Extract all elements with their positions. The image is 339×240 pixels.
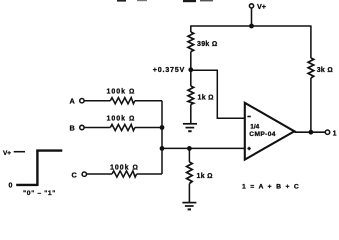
ground (reference divider): [183, 124, 197, 131]
wire: comparator output: [294, 131, 325, 133]
resistor 1k (reference divider lower): [188, 86, 194, 104]
V+ supply terminal: [249, 2, 266, 11]
svg-text:100k Ω: 100k Ω: [107, 116, 136, 123]
svg-text:CMP-04: CMP-04: [249, 131, 276, 138]
cropped caption text at top edge: [117, 0, 213, 2]
wire: C to resistor: [87, 173, 113, 175]
input step waveform annotation: [3, 150, 62, 198]
wire: A to resistor: [84, 100, 110, 102]
input terminal B: [70, 124, 85, 133]
svg-text:1 = A + B + C: 1 = A + B + C: [242, 184, 300, 191]
svg-text:V+: V+: [3, 150, 11, 157]
svg-text:C: C: [72, 170, 78, 179]
ground (summing): [182, 203, 196, 210]
wire: node to comparator inverting input: [191, 70, 245, 118]
wire: summing bus vertical: [161, 101, 163, 174]
resistor 39k (reference divider upper): [188, 32, 194, 52]
junction dot B on bus: [160, 125, 165, 130]
wire: rail to R 39k: [190, 25, 192, 32]
output terminal 1: [325, 130, 336, 137]
wire: R1k to ground: [188, 184, 190, 203]
resistor 1k (summing node to ground): [187, 162, 193, 184]
svg-text:V+: V+: [257, 2, 266, 11]
comparator U1 1/4 CMP-04: [245, 103, 295, 160]
resistor 100k (input A): [110, 98, 135, 104]
svg-text:1k Ω: 1k Ω: [197, 173, 213, 180]
input terminal C: [72, 170, 87, 179]
svg-text:1/4: 1/4: [250, 123, 259, 130]
wire: R1k to ground: [190, 104, 192, 123]
resistor 100k (input C): [112, 171, 137, 177]
junction dot summing 1k: [187, 146, 192, 151]
svg-text:100k Ω: 100k Ω: [107, 89, 136, 96]
node +0.375V: [188, 67, 193, 72]
wire: V+ stem: [251, 8, 253, 26]
non-inverting input mark: [247, 148, 250, 150]
wire: pull-up to output node: [310, 78, 312, 132]
wire: R39k to node: [190, 52, 192, 86]
junction dot at V+ on rail: [249, 24, 254, 29]
svg-text:+0.375V: +0.375V: [153, 65, 185, 74]
wire: B to resistor: [84, 127, 110, 129]
wire: summing rail to comparator non-inverting input: [162, 147, 245, 149]
svg-text:100k Ω: 100k Ω: [110, 164, 139, 171]
svg-text:39k Ω: 39k Ω: [197, 41, 218, 48]
wire: resistor B to bus: [135, 127, 162, 129]
resistor 3k (output pull-up): [308, 58, 314, 78]
wire: rail to summing 1k: [188, 148, 190, 162]
wire: rail to pull-up resistor: [310, 25, 312, 58]
junction dot output node: [309, 130, 314, 135]
svg-text:B: B: [70, 124, 75, 133]
svg-text:1: 1: [333, 130, 337, 137]
resistor 100k (input B): [110, 124, 135, 130]
inverting input mark: [247, 116, 250, 118]
junction dot bus to rail: [160, 146, 165, 151]
svg-text:3k Ω: 3k Ω: [317, 67, 333, 74]
wire: resistor C to bus: [137, 173, 162, 175]
input terminal A: [70, 97, 85, 106]
svg-text:0: 0: [9, 183, 13, 190]
svg-text:1k Ω: 1k Ω: [198, 95, 214, 102]
svg-text:"0" – "1": "0" – "1": [23, 190, 56, 197]
wire: resistor A to bus: [135, 100, 162, 102]
wire: top supply rail: [191, 25, 311, 27]
svg-text:A: A: [70, 97, 76, 106]
